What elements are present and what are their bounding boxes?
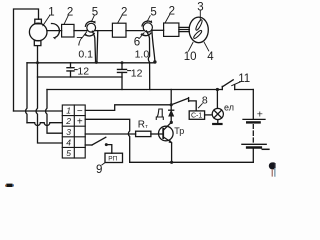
svg-text:ел: ел bbox=[224, 103, 234, 113]
svg-text:4: 4 bbox=[66, 137, 71, 147]
svg-text:1: 1 bbox=[48, 6, 54, 18]
svg-text:т: т bbox=[145, 124, 148, 130]
svg-text:5: 5 bbox=[92, 6, 98, 18]
svg-text:7: 7 bbox=[76, 37, 82, 49]
svg-text:6: 6 bbox=[134, 37, 140, 49]
svg-text:R: R bbox=[138, 120, 145, 131]
svg-text:+: + bbox=[257, 109, 263, 121]
svg-text:4: 4 bbox=[207, 51, 214, 63]
svg-text:3: 3 bbox=[66, 127, 71, 137]
svg-text:8: 8 bbox=[202, 94, 208, 106]
svg-text:Тр: Тр bbox=[174, 126, 184, 136]
svg-text:1.0: 1.0 bbox=[135, 48, 150, 60]
svg-text:2: 2 bbox=[169, 5, 175, 17]
svg-text:1: 1 bbox=[66, 106, 71, 116]
svg-text:2: 2 bbox=[67, 6, 73, 18]
svg-text:2: 2 bbox=[65, 116, 71, 126]
svg-text:11: 11 bbox=[238, 73, 250, 85]
svg-text:РП: РП bbox=[108, 156, 117, 163]
svg-text:+: + bbox=[77, 117, 83, 128]
svg-text:2: 2 bbox=[121, 6, 127, 18]
svg-text:3: 3 bbox=[197, 1, 203, 13]
svg-text:−: − bbox=[77, 106, 83, 117]
svg-text:10: 10 bbox=[184, 51, 197, 63]
svg-text:5: 5 bbox=[66, 148, 71, 158]
svg-text:С-1: С-1 bbox=[191, 112, 202, 119]
svg-text:0.1: 0.1 bbox=[78, 49, 93, 61]
svg-text:12: 12 bbox=[77, 66, 89, 78]
svg-text:9: 9 bbox=[96, 164, 102, 176]
svg-text:12: 12 bbox=[131, 68, 143, 80]
svg-text:Д: Д bbox=[156, 106, 165, 120]
svg-text:5: 5 bbox=[150, 6, 156, 18]
